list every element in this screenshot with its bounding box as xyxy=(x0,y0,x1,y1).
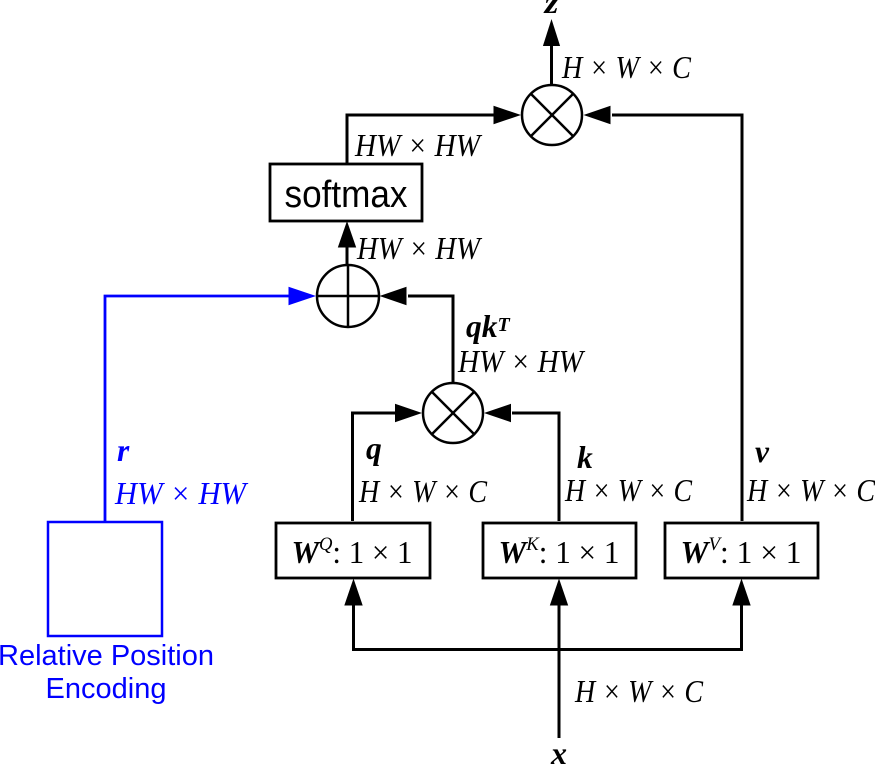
box relative position encoding (blue) xyxy=(48,522,162,636)
svg-text:q: q xyxy=(366,431,382,466)
svg-text:H × W × C: H × W × C xyxy=(564,473,693,508)
svg-text:H × W × C: H × W × C xyxy=(574,674,704,709)
box WK 1x1 xyxy=(483,523,636,578)
wire q column to multiply M2 xyxy=(353,413,397,521)
wire k column to multiply M2 xyxy=(512,413,559,521)
wire softmax to multiply M1 xyxy=(347,115,495,164)
svg-text:WK: 1 × 1: WK: 1 × 1 xyxy=(499,534,620,570)
svg-text:H × W × C: H × W × C xyxy=(358,474,488,509)
wire v column to multiply M1 xyxy=(612,115,742,521)
wire input distribution bus xyxy=(352,648,742,651)
svg-text:H × W × C: H × W × C xyxy=(746,473,875,508)
svg-text:H × W × C: H × W × C xyxy=(561,50,692,85)
svg-text:z: z xyxy=(543,0,559,20)
svg-text:HW × HW: HW × HW xyxy=(457,344,585,379)
svg-text:HW × HW: HW × HW xyxy=(354,128,482,163)
svg-text:Encoding: Encoding xyxy=(46,673,167,705)
svg-text:x: x xyxy=(550,736,567,765)
svg-text:qkT: qkT xyxy=(466,309,511,344)
multiply node M2 (lower circle-cross) xyxy=(423,383,483,443)
box WV 1x1 xyxy=(665,523,818,578)
svg-text:WV: 1 × 1: WV: 1 × 1 xyxy=(681,534,802,570)
wire add node A1 to softmax xyxy=(346,246,349,266)
box WQ 1x1 xyxy=(276,523,430,578)
multiply node M1 (top circle-cross) xyxy=(522,85,582,145)
arrowhead into WV xyxy=(732,579,750,606)
add node A1 (circle-plus) xyxy=(317,265,379,327)
blue wire relative position encoding to add node xyxy=(105,296,290,522)
svg-text:WQ: 1 × 1: WQ: 1 × 1 xyxy=(292,534,413,570)
softmax box xyxy=(270,164,422,221)
svg-text:v: v xyxy=(755,434,770,469)
arrowhead into WQ xyxy=(344,579,362,606)
wire multiply M2 to add node A1 xyxy=(408,296,453,383)
svg-text:softmax: softmax xyxy=(285,174,408,216)
svg-text:Relative Position: Relative Position xyxy=(0,640,214,672)
svg-text:HW × HW: HW × HW xyxy=(114,476,249,511)
svg-text:r: r xyxy=(117,433,130,468)
svg-text:k: k xyxy=(577,440,593,475)
svg-text:HW × HW: HW × HW xyxy=(356,231,482,266)
wire z output arrow xyxy=(550,44,553,85)
arrowhead into WK xyxy=(550,579,568,606)
